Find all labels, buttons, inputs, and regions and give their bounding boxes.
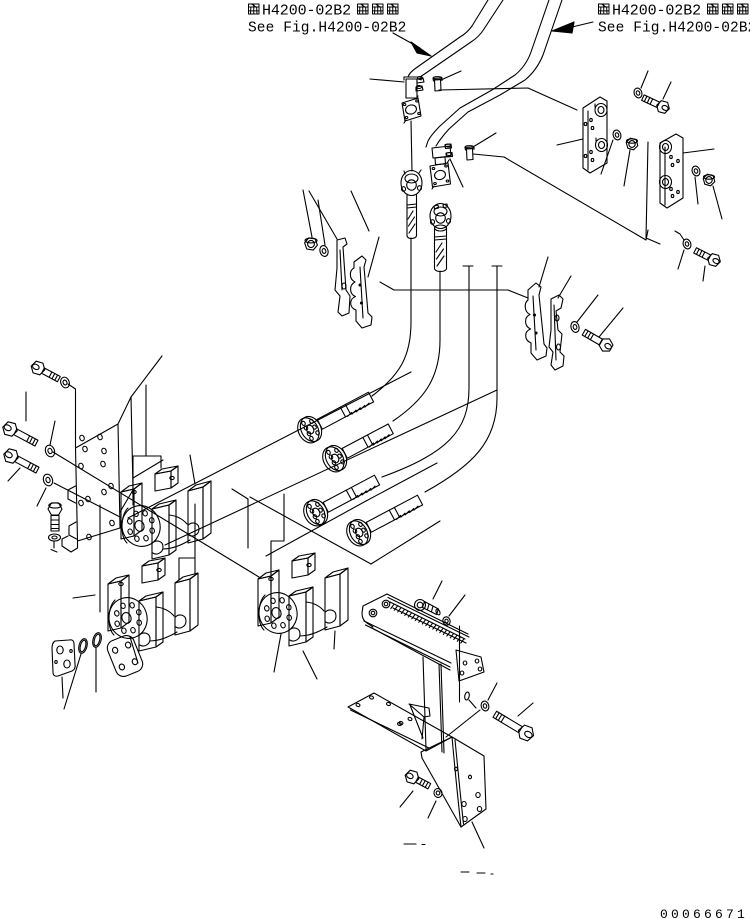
washer W6 [570,321,581,334]
elbow fitting 2 body [432,146,451,158]
clamp L1 (smooth half) [335,238,350,316]
o-ring 2 [91,632,103,649]
elbow fitting 1 body [406,79,417,98]
square flange 1 [402,98,421,121]
leader N2 [428,801,436,818]
vertical post [423,657,426,749]
long leader clamps [380,282,528,298]
clamp R1 (wavy half) [525,283,547,360]
round flange 2 [430,204,451,229]
step leader [232,489,248,548]
callout text: See Fig.H4200-02B2 (left) [249,4,260,14]
shoulder bolt B4 [48,503,62,515]
leader clamp R2 [558,276,571,298]
bolt RB1 [657,101,670,114]
mounting plate B (right) [660,134,683,208]
bolt B6 [405,770,419,784]
callout text: See Fig.H4200-02B2 (right) [599,4,610,14]
round flange 1 [401,171,422,196]
washer W7 [480,700,490,712]
hose stub A [406,194,408,236]
washer W2 [44,444,57,458]
long bolt B5 [519,725,534,741]
arrow to pipe 2 [572,22,593,27]
long leader LL1 [128,372,411,518]
axis line washer3 short [54,483,120,517]
pump mount assembly L2 (lower right) [254,553,348,646]
leader N1 [303,190,312,237]
washer RW3 [691,165,702,177]
leader clamp L2 [368,237,379,277]
nut N1 (left clamps) [305,238,318,250]
arrow to pipe 1 [393,33,420,48]
fork leader assembly L1 [179,504,195,580]
leader o-ring 2 [95,648,97,692]
leader pin 2 up [473,133,496,147]
svg-text:00066671: 00066671 [660,907,748,919]
washer RW1 [633,87,644,99]
leader disc L2 [274,634,281,672]
leader B5 [518,703,533,716]
leader RW3 [695,177,698,204]
boundary seg2 [366,463,437,501]
svg-text:See Fig.H4200-02B2: See Fig.H4200-02B2 [248,21,406,37]
leader pin 1 up [441,71,461,80]
mounting plate A (right) [583,97,607,173]
hose assembly A [296,413,326,446]
leader from plate apex [131,356,162,397]
clamp L2 (wavy half) [350,256,372,328]
leader W7 to bracket [446,710,480,737]
leader plate A [557,139,583,145]
leader RW1 [641,71,648,88]
arm bolt [415,600,426,611]
boundary seg4 [371,521,440,564]
leader W3 [37,488,46,506]
leader W2 [50,421,55,445]
svg-text:H4200-02B2: H4200-02B2 [262,3,351,20]
hole tab above bracket [464,692,470,701]
axis line pin 1 to plate A [439,88,577,110]
nut RN2 [703,174,715,186]
hose line B [393,271,440,421]
square flange 2 [430,163,451,187]
leader from elbow 2 [450,159,463,187]
leader RN2 [713,186,722,219]
bolt B2 [3,422,17,436]
pump mount assembly L1 (lower left) [104,558,198,651]
leader arm washer [449,595,465,616]
gusset [409,704,430,717]
leader B2 [25,392,27,421]
bolt RB3 [599,339,613,351]
centerline mark 1 [404,843,416,845]
gasket plate [52,640,75,676]
washer W5 [319,245,330,258]
centerline mark 2 [461,871,469,873]
leader clamp L1 up [309,191,337,239]
pin bolt 2 [467,149,474,161]
fork leader assembly L2 [271,494,284,586]
washer W1 [59,376,71,389]
leader RW4 bottom [678,250,684,269]
hose assembly B [321,442,351,475]
arm washer [442,616,452,626]
hose stub B [435,225,447,231]
leader L1 left [73,595,95,598]
tick C [463,265,473,267]
washer RW2 [612,129,623,141]
vertical leader to L1 [99,505,101,612]
leader RB2 [703,266,705,281]
pipe tube 1 [408,0,488,77]
leader W1 to plate [68,384,76,447]
boundary seg1 [266,501,366,556]
pump mount assembly U (upper) [117,466,211,559]
leader RW2 [601,140,613,174]
vertical leader right of arm [459,626,461,702]
axis line pin 2 to leader end [473,154,648,240]
o-ring 1 [77,638,89,655]
hose line A [372,238,411,396]
leader tall block U [190,455,195,484]
leader W7 up [488,683,497,700]
pipe stem below flange 1 [411,121,412,171]
leader arm bolt [433,581,442,599]
axis line washer2 to assembly [53,452,259,577]
leader RW4 top [675,231,684,240]
leader gasket [62,677,63,698]
leader C-block L2 [303,651,317,679]
bottom bracket [452,737,486,827]
leader disc L1 [130,637,138,663]
nut RN1 [626,138,638,150]
hose assembly D [345,516,375,549]
leader plate B [683,149,714,153]
washer W3 [42,473,55,487]
bracket arm [362,594,387,627]
pin bolt 1 [435,80,442,92]
leader RB1 [663,82,671,99]
leader small block U [133,460,163,478]
nut N2 [433,788,443,799]
oval flange plate (4 holes) [105,633,145,679]
pipe tube 2 [426,0,549,147]
vertical leader to plate B [646,142,660,244]
hose assembly C [302,496,332,529]
leader RN1 [624,150,630,186]
long leader LL2 [165,390,497,545]
leader clamp R1 [539,257,548,287]
left mounting plate [76,424,121,541]
leader tall block L2 [334,631,335,649]
leader o-ring 1 [64,654,81,709]
tick D [492,265,502,267]
bolt B3 [4,449,18,463]
leader W6 [577,295,598,322]
svg-text:H4200-02B2: H4200-02B2 [612,3,701,20]
washer RW4 [682,238,693,250]
leader clamp L2 up [351,191,369,231]
fork leader assembly U [133,385,161,505]
svg-text:See Fig.H4200-02B2: See Fig.H4200-02B2 [598,21,750,37]
bolt B1 [31,361,45,375]
leader B3 [8,468,20,481]
leader B6 [400,791,413,807]
bolt RB2 [708,254,721,267]
leader RB3 [599,308,623,337]
leader to elbow fitting 1 [370,79,404,82]
clamp R2 (smooth half) [549,295,564,370]
boundary seg3 [250,497,371,564]
leader bracket [472,822,484,848]
leader W5 [318,200,325,245]
mid mounting plate [348,693,452,751]
